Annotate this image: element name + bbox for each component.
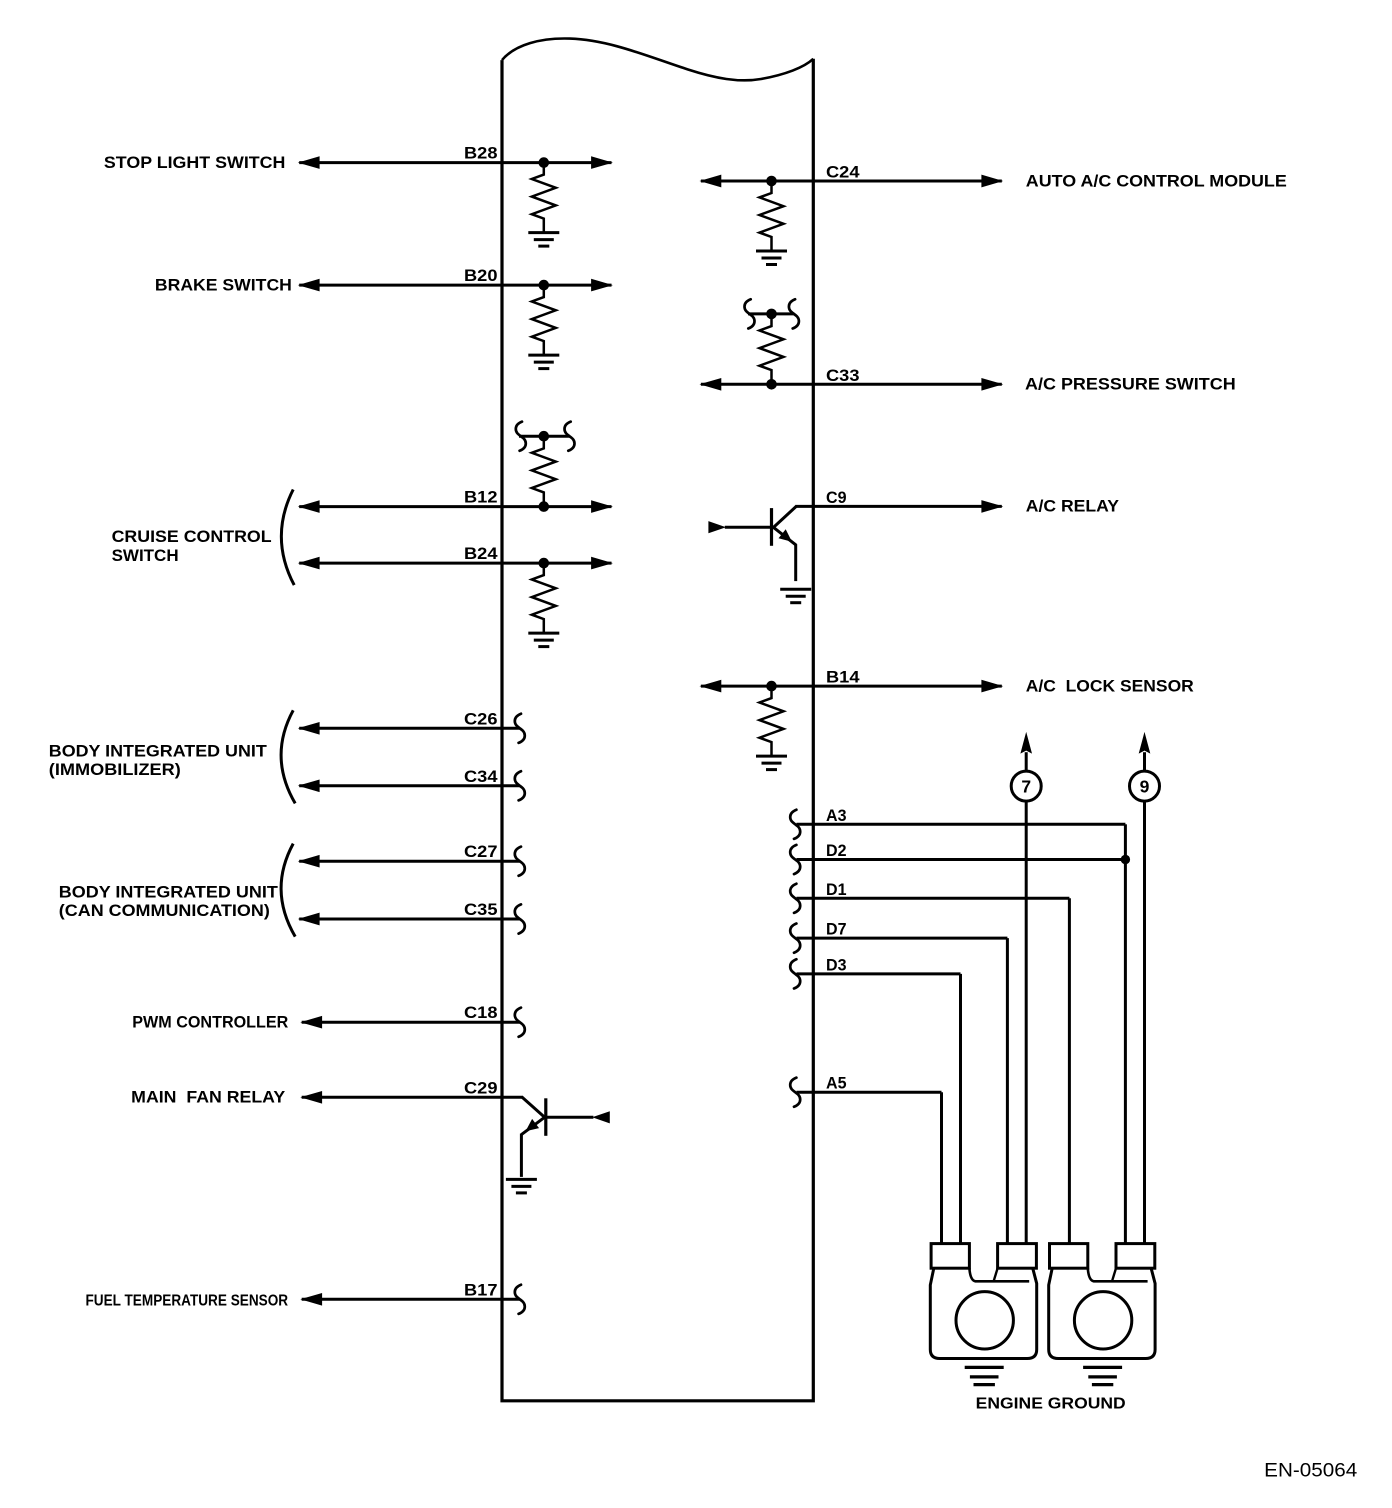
wire-break squiggle on pin D1	[790, 884, 800, 913]
engine ground lug crimp notch right lug	[1088, 1268, 1148, 1281]
transistor Q1 emitter arrowhead	[779, 530, 791, 541]
arrowhead left of wire C24	[701, 175, 721, 187]
transistor Q1 base wire	[725, 526, 771, 529]
circled node 7	[1011, 771, 1041, 801]
arrowhead left of wire C26	[299, 723, 319, 735]
svg-text:C34: C34	[464, 768, 498, 786]
ground below transistor Q2	[506, 1179, 537, 1193]
wire-break squiggle on pin C27	[515, 847, 525, 876]
resistor pull-down on B20	[532, 285, 556, 355]
resistor pull-down on C24	[760, 181, 784, 251]
wire-break squiggle right of B12 pull-up node	[565, 422, 575, 451]
arrowhead left of wire C35	[299, 913, 319, 925]
wire pin C9	[795, 505, 1002, 508]
svg-text:C9: C9	[826, 489, 847, 507]
svg-text:C27: C27	[464, 843, 498, 861]
svg-text:C24: C24	[826, 164, 860, 182]
svg-text:ENGINE GROUND: ENGINE GROUND	[976, 1395, 1126, 1412]
wire-break squiggle on pin C34	[515, 771, 525, 800]
wire pin B28	[299, 161, 611, 164]
arrowhead right of wire C24	[982, 175, 1002, 187]
svg-text:EN-05064: EN-05064	[1264, 1460, 1357, 1482]
node junction dot of C33 pull-up	[766, 309, 777, 320]
wire pin D2	[797, 858, 1126, 861]
ground below B28 resistor	[528, 233, 559, 247]
wire D1 down to engine ground lug	[1068, 898, 1071, 1244]
svg-text:C18: C18	[464, 1004, 498, 1022]
svg-text:B17: B17	[464, 1281, 498, 1299]
arrowhead left of wire B28	[299, 157, 319, 169]
node junction dot on B20	[539, 280, 550, 291]
arrowhead right of wire C9	[982, 501, 1002, 513]
transistor Q1 base arrowhead (C9)	[709, 522, 725, 533]
engine ground lug eyelet hole left lug	[956, 1292, 1013, 1349]
ground symbol below lug right lug	[1083, 1367, 1122, 1384]
svg-text:C33: C33	[826, 367, 860, 385]
svg-text:SWITCH: SWITCH	[112, 547, 179, 565]
arrow up above node 7	[1021, 733, 1031, 753]
engine ground lug body right lug	[1049, 1268, 1155, 1358]
arrowhead left of wire B12	[299, 501, 319, 513]
wire-break squiggle on pin D7	[790, 924, 800, 953]
svg-text:(IMMOBILIZER): (IMMOBILIZER)	[49, 761, 181, 779]
wire-break squiggle on pin A3	[790, 810, 800, 839]
svg-text:C29: C29	[464, 1079, 498, 1097]
transistor Q1 base bar	[770, 508, 773, 546]
engine ground lug terminal block T3	[1050, 1244, 1088, 1269]
wire A5 down to engine ground lug	[940, 1092, 943, 1244]
wire pin B12	[299, 505, 611, 508]
svg-text:MAIN FAN RELAY: MAIN FAN RELAY	[131, 1089, 285, 1107]
arrow up above node 9	[1139, 733, 1149, 753]
arrowhead right of wire B28	[592, 157, 612, 169]
node junction dot on B24	[539, 558, 550, 569]
wire A3/D2 down to engine ground lug	[1124, 860, 1127, 1245]
arrowhead right of wire B12	[592, 501, 612, 513]
wire pin C29	[302, 1096, 523, 1099]
wire A3 drop to D2 junction	[1124, 824, 1127, 859]
svg-text:A/C PRESSURE SWITCH: A/C PRESSURE SWITCH	[1025, 376, 1236, 394]
transistor Q2 emitter lead down	[520, 1134, 523, 1177]
wire D7 down to engine ground lug	[1006, 938, 1009, 1245]
svg-text:A/C RELAY: A/C RELAY	[1026, 498, 1119, 516]
svg-text:D1: D1	[826, 881, 847, 899]
ground below B20 resistor	[528, 355, 559, 369]
ground below C24 resistor	[756, 251, 787, 265]
wire-break squiggle on pin C35	[515, 904, 525, 933]
brace arc for BODY INTEGRATED UNIT (IMMOBILIZER)	[281, 710, 295, 803]
ground below B24 resistor	[528, 633, 559, 647]
engine ground lug body left lug	[930, 1268, 1036, 1358]
svg-text:BRAKE SWITCH: BRAKE SWITCH	[155, 276, 292, 294]
ground below B14 resistor	[756, 756, 787, 770]
ECU box torn-paper wavy top edge	[502, 39, 813, 81]
wire-break squiggle on pin B17	[515, 1285, 525, 1314]
wire pin A3	[797, 823, 1126, 826]
arrowhead left of wire C27	[299, 855, 319, 867]
svg-text:AUTO A/C CONTROL MODULE: AUTO A/C CONTROL MODULE	[1026, 172, 1287, 190]
node junction dot on C24	[766, 176, 777, 187]
svg-text:(CAN COMMUNICATION): (CAN COMMUNICATION)	[59, 902, 270, 920]
wire from node 7 down to engine ground lug	[1025, 801, 1028, 1245]
resistor pull-up on B12	[532, 436, 556, 506]
node junction dot on B12	[539, 501, 550, 512]
wire D3 down to engine ground lug	[959, 974, 962, 1245]
resistor pull-up on C33	[760, 314, 784, 384]
wire-break squiggle left of C33 pull-up node	[745, 299, 755, 328]
wire-break squiggle on pin C18	[515, 1008, 525, 1037]
svg-text:A/C LOCK SENSOR: A/C LOCK SENSOR	[1026, 677, 1194, 695]
node junction dot on B14	[766, 681, 777, 692]
wire pin D3	[797, 972, 961, 975]
wire pin B24	[299, 562, 611, 565]
wire pin B20	[299, 284, 611, 287]
wire pin D1	[797, 897, 1070, 900]
svg-text:A3: A3	[826, 807, 847, 825]
svg-text:B14: B14	[826, 669, 860, 687]
circled node 9	[1130, 771, 1160, 801]
svg-text:B24: B24	[464, 545, 498, 563]
arrowhead left of wire B20	[299, 279, 319, 291]
transistor Q2 emitter arrowhead	[527, 1120, 539, 1131]
svg-text:STOP LIGHT SWITCH: STOP LIGHT SWITCH	[104, 154, 286, 172]
svg-text:D2: D2	[826, 842, 847, 860]
wire-break squiggle on pin D2	[790, 845, 800, 874]
wire-break squiggle on pin A5	[790, 1078, 800, 1107]
svg-text:B20: B20	[464, 267, 498, 285]
arrowhead right of wire B24	[592, 557, 612, 569]
node junction dot A3/D2	[1121, 855, 1130, 864]
wire pin C18	[302, 1021, 520, 1024]
transistor Q2 base wire	[547, 1116, 594, 1119]
engine ground lug terminal block T2	[998, 1244, 1037, 1269]
wire-break squiggle on pin C26	[515, 714, 525, 743]
arrowhead left of wire C34	[299, 780, 319, 792]
resistor pull-down on B24	[532, 563, 556, 633]
brace arc for CRUISE CONTROL SWITCH	[281, 490, 294, 586]
svg-text:BODY INTEGRATED UNIT: BODY INTEGRATED UNIT	[59, 883, 278, 901]
svg-text:B12: B12	[464, 489, 498, 507]
arrowhead right of wire C33	[982, 379, 1002, 391]
svg-text:9: 9	[1140, 776, 1150, 796]
resistor pull-down on B28	[532, 163, 556, 233]
transistor Q2 base bar	[544, 1098, 547, 1136]
wire pin D7	[797, 937, 1008, 940]
transistor Q1 collector diagonal	[773, 506, 796, 527]
ground below transistor Q1	[780, 589, 811, 603]
arrowhead left of wire C33	[701, 379, 721, 391]
ECU box outline (left edge, bottom edge, right edge)	[502, 59, 813, 1401]
svg-text:D3: D3	[826, 956, 847, 974]
arrowhead left of wire B24	[299, 557, 319, 569]
wire pin B17	[302, 1298, 520, 1301]
wire stub of pull-up net above C33	[748, 312, 795, 315]
wire pin C27	[299, 860, 520, 863]
wire pin C33	[701, 383, 1002, 386]
svg-text:CRUISE CONTROL: CRUISE CONTROL	[112, 528, 272, 546]
svg-text:C35: C35	[464, 901, 498, 919]
svg-text:FUEL TEMPERATURE SENSOR: FUEL TEMPERATURE SENSOR	[86, 1292, 289, 1309]
ground symbol below lug left lug	[965, 1367, 1004, 1384]
engine ground lug crimp notch left lug	[969, 1268, 1029, 1281]
arrowhead right of wire B20	[592, 279, 612, 291]
wire-break squiggle right of C33 pull-up node	[789, 299, 799, 328]
svg-text:BODY INTEGRATED UNIT: BODY INTEGRATED UNIT	[49, 743, 267, 761]
brace arc for BODY INTEGRATED UNIT (CAN COMMUNICATION)	[281, 844, 295, 937]
node junction dot on B28	[539, 157, 550, 168]
wire pin C24	[701, 180, 1002, 183]
transistor Q1 emitter lead down	[794, 544, 797, 581]
wire pin A5	[797, 1091, 942, 1094]
arrowhead left of wire C18	[302, 1016, 322, 1028]
svg-text:D7: D7	[826, 921, 847, 939]
transistor Q2 collector diagonal (C29)	[522, 1097, 545, 1118]
svg-text:B28: B28	[464, 145, 498, 163]
svg-text:A5: A5	[826, 1075, 847, 1093]
engine ground lug eyelet hole right lug	[1074, 1292, 1131, 1349]
wire pin C34	[299, 784, 520, 787]
engine ground lug terminal block T1	[931, 1244, 969, 1269]
arrowhead right of wire B14	[982, 680, 1002, 692]
arrowhead left of wire B17	[302, 1294, 322, 1306]
svg-text:PWM CONTROLLER: PWM CONTROLLER	[132, 1014, 288, 1032]
node junction dot on C33	[766, 379, 777, 390]
transistor Q2 emitter diagonal	[521, 1117, 544, 1134]
arrowhead left of wire C29	[302, 1092, 322, 1104]
wire from node 9 down to engine ground lug	[1143, 801, 1146, 1245]
wire pin B14	[701, 685, 1002, 688]
resistor pull-down on B14	[760, 686, 784, 756]
node junction dot of B12 pull-up	[539, 431, 550, 442]
wire pin C26	[299, 727, 520, 730]
wire stub of pull-up net above B12	[519, 435, 570, 438]
engine ground lug terminal block T4	[1116, 1244, 1155, 1269]
transistor Q1 emitter diagonal	[773, 527, 796, 545]
transistor Q2 base arrowhead	[593, 1112, 609, 1123]
arrowhead left of wire B14	[701, 680, 721, 692]
wire-break squiggle left of B12 pull-up node	[516, 422, 526, 451]
wire pin C35	[299, 918, 520, 921]
svg-text:7: 7	[1021, 776, 1031, 796]
wire-break squiggle on pin D3	[790, 959, 800, 988]
svg-text:C26: C26	[464, 710, 498, 728]
